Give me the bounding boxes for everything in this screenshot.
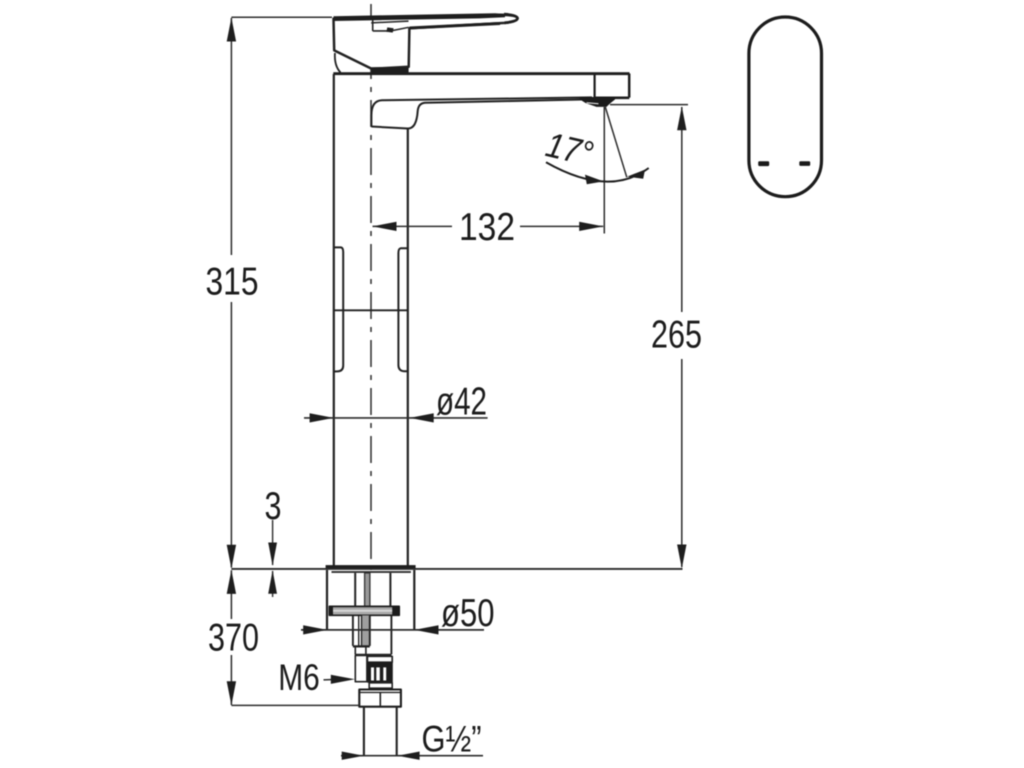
- under-counter cylinder left edge: [326, 570, 328, 629]
- dimension G half inch line: [341, 755, 483, 757]
- threaded rod below washer: [362, 615, 370, 646]
- threaded rod upper gray: [365, 573, 370, 606]
- svg-text:ø42: ø42: [436, 381, 487, 424]
- water stream angled line: [605, 107, 627, 177]
- lever tip outline: [504, 14, 517, 23]
- centerline of faucet body: [370, 4, 372, 570]
- spout end cap bottom edge: [595, 97, 630, 100]
- base plate lower line: [332, 571, 411, 573]
- outlet white sliver: [586, 102, 598, 104]
- rod neck: [354, 648, 356, 655]
- lever blade bottom edge thick: [410, 24, 501, 29]
- outlet vertical extension line: [603, 107, 605, 234]
- svg-text:3: 3: [265, 485, 282, 528]
- lever pivot vertical line: [372, 20, 374, 32]
- M6 leader arrow: [324, 679, 335, 681]
- svg-text:ø50: ø50: [441, 592, 495, 635]
- column right edge: [407, 129, 409, 566]
- top view right dash: [799, 161, 810, 166]
- cartridge seam right: [398, 248, 407, 371]
- cartridge seam left: [334, 247, 343, 371]
- svg-text:M6: M6: [278, 657, 320, 698]
- lever blade top band: [334, 13, 506, 21]
- shank tube lower right line: [390, 615, 392, 654]
- washer: [329, 606, 399, 615]
- lever pivot horizontal seam: [373, 30, 391, 32]
- lever handle outline: [334, 15, 518, 69]
- dimension 370 extension line bottom: [231, 704, 359, 706]
- lever inner top edge line: [371, 21, 408, 23]
- countertop line: [231, 568, 682, 570]
- spout end cap divider: [593, 75, 595, 98]
- spout outlet dark blob: [580, 97, 616, 107]
- handle base dark bar: [371, 67, 408, 73]
- shank tube bottom line: [355, 654, 391, 656]
- M6 slotted dark block: [367, 662, 392, 683]
- base plate top: [326, 565, 416, 568]
- under-counter cylinder right edge: [413, 570, 415, 629]
- dimension diameter 42 line: [304, 417, 488, 419]
- top view stadium outline: [749, 17, 822, 197]
- body top edge: [333, 72, 629, 75]
- lever fold line: [391, 27, 409, 31]
- dimension 315 extension line top: [231, 16, 332, 18]
- dimension 265 line: [681, 107, 683, 312]
- spout underside front edge with fillet: [371, 100, 582, 129]
- column left edge: [333, 74, 335, 566]
- dimension 132 line: [373, 225, 453, 227]
- svg-text:G½”: G½”: [422, 719, 482, 760]
- svg-text:17°: 17°: [542, 125, 597, 174]
- M6 screw lower collar: [369, 683, 392, 688]
- shank tube upper left line: [354, 573, 356, 606]
- svg-text:265: 265: [651, 314, 702, 357]
- hex nut: [359, 690, 401, 707]
- angle dimension arc: [546, 162, 649, 181]
- M6 screw left tube: [355, 655, 367, 681]
- svg-text:370: 370: [208, 616, 259, 659]
- svg-text:315: 315: [206, 261, 259, 304]
- M6 screw upper collar: [367, 656, 392, 662]
- top view left dash: [758, 161, 769, 166]
- inlet pipe left edge: [363, 707, 365, 756]
- dimension 370 line: [230, 570, 232, 619]
- rod bottom line: [353, 645, 370, 647]
- dimension 265 extension line: [610, 104, 688, 106]
- spout end cap right edge: [628, 74, 631, 98]
- svg-text:132: 132: [459, 206, 515, 249]
- dimension 3 leader lines: [272, 520, 274, 565]
- spout underside back edge: [371, 97, 592, 126]
- handle underside curve: [335, 53, 341, 73]
- dimension diameter 50 line: [301, 629, 484, 631]
- inlet pipe right edge: [396, 707, 398, 756]
- shank tube upper right line: [389, 573, 391, 606]
- column joint line: [334, 309, 408, 311]
- dimension 315 line: [230, 18, 232, 255]
- lever pivot dark notch: [386, 27, 393, 32]
